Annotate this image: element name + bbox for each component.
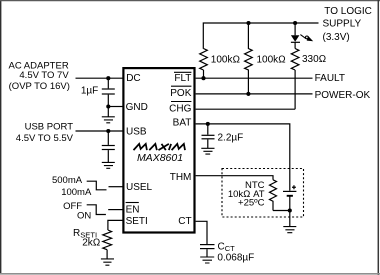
node R2/POK [246, 92, 250, 96]
border frame [0, 0, 2, 273]
wire BAT row [196, 124, 290, 191]
capacitor C_CT [200, 244, 215, 246]
svg-text:MAX8601: MAX8601 [137, 152, 183, 164]
svg-text:1µF: 1µF [81, 86, 98, 97]
svg-text:4.5V TO 7V: 4.5V TO 7V [19, 70, 69, 81]
thermistor NTC [270, 180, 277, 211]
svg-text:THM: THM [170, 172, 192, 183]
ground (USB cap) [102, 162, 115, 168]
wire GND pin [108, 106, 122, 108]
wire SETI pin [108, 220, 123, 230]
svg-text:100mA: 100mA [61, 187, 92, 198]
svg-text:FLT: FLT [174, 73, 191, 84]
svg-text:FAULT: FAULT [315, 73, 345, 84]
wire battery to ground [289, 211, 291, 227]
battery BT1 [283, 190, 296, 192]
node GND junction [106, 104, 110, 108]
svg-text:CHG: CHG [169, 104, 191, 115]
svg-text:330Ω: 330Ω [302, 54, 326, 65]
node rail/R2 [246, 21, 250, 25]
resistor R_SETI 2k [103, 230, 112, 250]
svg-text:100kΩ: 100kΩ [257, 54, 286, 65]
capacitor C1 1uF [107, 78, 109, 88]
svg-text:CT: CT [178, 216, 191, 227]
svg-text:2kΩ: 2kΩ [82, 238, 100, 249]
ground (R_SETI) [101, 259, 114, 265]
ground (input) [107, 107, 109, 117]
svg-text:ON: ON [77, 210, 91, 221]
IC U1 MAX8601 [123, 68, 194, 232]
svg-text:USB PORT: USB PORT [25, 122, 74, 133]
ground (C3) [201, 148, 214, 154]
resistor R2 100k [245, 23, 253, 94]
capacitor C2 (USB bypass) [107, 131, 109, 145]
ground (C_CT) [200, 257, 214, 263]
node BAT/C3 [206, 122, 210, 126]
svg-text:(3.3V): (3.3V) [323, 32, 350, 43]
ground (battery) [283, 227, 296, 233]
wire FLT row [196, 77, 313, 79]
svg-text:POWER-OK: POWER-OK [315, 90, 371, 101]
wire EN option OFF/ON [87, 205, 106, 215]
wire EN pin [108, 209, 122, 211]
wire USEL pin [109, 186, 123, 188]
wire DC input [76, 77, 123, 79]
node battery junction [288, 208, 292, 212]
svg-text:POK: POK [170, 88, 191, 99]
resistor R3 330 [291, 49, 299, 71]
wire NTC to battery [273, 210, 290, 212]
wire USEL option 500mA [87, 181, 107, 190]
battery pack dashed box [222, 169, 304, 218]
resistor R1 100k [200, 49, 208, 71]
LED D1 [294, 23, 296, 35]
svg-text:USB: USB [126, 127, 147, 138]
Maxim logo [134, 144, 186, 150]
svg-text:+25ºC: +25ºC [238, 198, 265, 209]
svg-text:DC: DC [126, 73, 140, 84]
svg-text:4.5V TO 5.5V: 4.5V TO 5.5V [16, 133, 74, 144]
battery plus sign [292, 185, 296, 189]
node DC/C1 junction [106, 76, 110, 80]
wire CT [196, 221, 207, 244]
node USB junction [106, 129, 110, 133]
wire logic supply rail [203, 23, 318, 49]
svg-text:SETI: SETI [126, 216, 148, 227]
svg-text:EN: EN [126, 205, 140, 216]
wire USB input [76, 130, 123, 132]
capacitor C3 2.2uF [207, 124, 209, 135]
svg-text:GND: GND [126, 102, 148, 113]
svg-text:2.2µF: 2.2µF [218, 133, 244, 144]
svg-text:USEL: USEL [126, 182, 153, 193]
svg-text:TO LOGIC: TO LOGIC [324, 6, 372, 17]
wire POK row [196, 93, 313, 95]
node R1/FLT [201, 76, 205, 80]
wire THM row [196, 176, 273, 180]
svg-text:100kΩ: 100kΩ [211, 54, 240, 65]
wire CHG row [196, 108, 296, 110]
svg-text:CCT: CCT [218, 242, 236, 254]
svg-text:BAT: BAT [173, 118, 192, 129]
svg-text:SUPPLY: SUPPLY [323, 19, 362, 30]
LED light arrow [300, 35, 305, 39]
node rail/LED [293, 21, 297, 25]
svg-text:500mA: 500mA [52, 175, 83, 186]
svg-text:(OVP TO 16V): (OVP TO 16V) [9, 81, 70, 92]
svg-text:0.068µF: 0.068µF [217, 253, 254, 264]
